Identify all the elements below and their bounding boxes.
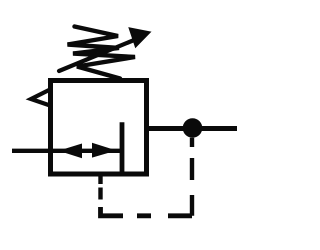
output port wire [144,126,237,131]
valve body V1 [51,81,147,175]
flow arrowhead left [59,144,83,159]
pilot line left vertical (dashed) [98,177,102,200]
flow arrowhead right [92,143,117,158]
vent triangle [31,90,50,106]
junction node [183,118,203,138]
pilot line bottom corner right (dashed) [137,213,192,218]
adjustment arrowhead [129,28,151,48]
pilot line right vertical (dashed) [190,138,194,216]
valve seat bar [120,122,125,174]
pilot line bottom corner left (dashed) [101,207,124,216]
input port wire [12,149,121,153]
spring [68,27,136,79]
adjustment arrow shaft [59,38,139,71]
